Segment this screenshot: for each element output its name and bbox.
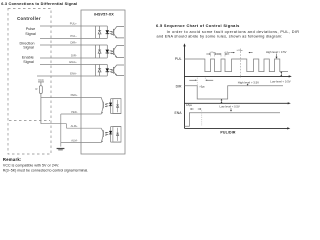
svg-text:>2.5µs: >2.5µs [209, 51, 215, 54]
svg-text:Signal: Signal [23, 60, 34, 64]
dashed divider [240, 49, 242, 79]
svg-text:iHSV57-XX: iHSV57-XX [94, 12, 114, 16]
ENA time axis [185, 127, 289, 129]
svg-text:and ENA should abide by some r: and ENA should abide by some rules, show… [157, 35, 283, 39]
svg-text:High level > 3.5V: High level > 3.5V [238, 80, 259, 84]
controller inner dashed divider [9, 120, 50, 122]
svg-text:Low level < 0.5V: Low level < 0.5V [220, 104, 240, 108]
svg-text:6.3 Connections to Differentia: 6.3 Connections to Differential Signal [1, 2, 77, 6]
wire ALM+ (with jog) [41, 123, 67, 125]
ground return wire [60, 114, 62, 147]
svg-text:PUL+: PUL+ [70, 21, 77, 25]
optocoupler input DIR [96, 45, 125, 58]
DIR setup dimension [189, 79, 196, 81]
svg-text:R: R [36, 87, 38, 91]
svg-text:Controller: Controller [17, 16, 41, 21]
svg-text:ENA-: ENA- [70, 71, 77, 75]
wire DIR+ [40, 44, 96, 46]
annotation low level PUL [280, 72, 282, 76]
svg-text:>2.5µs: >2.5µs [224, 51, 230, 54]
wire ALM- [61, 142, 102, 144]
svg-text:Signal: Signal [25, 32, 36, 36]
svg-text:DIR-: DIR- [71, 53, 77, 57]
svg-text:Remark:: Remark: [3, 157, 22, 162]
svg-text:>2.5µs: >2.5µs [236, 49, 242, 52]
wire DIR- [40, 57, 96, 59]
wire PED- [61, 113, 102, 115]
dimension t over pulse 2 [217, 53, 221, 55]
svg-text:>5µs: >5µs [199, 85, 205, 88]
wire ENA- [37, 75, 96, 77]
ground symbol [57, 148, 65, 150]
dimension t at divider [231, 52, 235, 54]
wire PUL- [40, 37, 96, 39]
wire from resistor down [40, 94, 42, 124]
svg-text:PUL/DIR: PUL/DIR [220, 131, 236, 135]
svg-text:R(3~5K) must be connected to c: R(3~5K) must be connected to control sig… [3, 169, 88, 173]
PUL time axis [185, 75, 291, 77]
svg-text:Signal: Signal [23, 46, 34, 50]
controller dashed box [8, 9, 51, 155]
optocoupler output PED [101, 98, 121, 114]
svg-text:t≥5µs: t≥5µs [186, 104, 193, 107]
DIR waveform [185, 86, 284, 99]
wire PUL+ [40, 25, 96, 27]
wire PED+ [41, 96, 102, 98]
svg-text:In order to avoid some fault o: In order to avoid some fault operations … [167, 30, 300, 34]
svg-text:PUL-: PUL- [70, 34, 76, 38]
svg-text:ENA: ENA [175, 111, 183, 115]
ENA waveform [185, 113, 281, 127]
driver box iHSV57-XX [81, 10, 125, 154]
DIR time axis [185, 102, 290, 104]
svg-text:PED+: PED+ [71, 93, 78, 97]
svg-text:ALM-: ALM- [71, 138, 77, 142]
svg-text:ENA+: ENA+ [69, 60, 77, 64]
annotation low level DIR [221, 100, 223, 103]
svg-text:DIR: DIR [176, 84, 182, 88]
svg-text:VCC is compatible with 5V or 2: VCC is compatible with 5V or 24V. [3, 163, 59, 167]
svg-text:ALM+: ALM+ [71, 124, 78, 128]
svg-text:PUL: PUL [175, 57, 182, 61]
svg-text:High level > 3.5V: High level > 3.5V [266, 50, 287, 54]
svg-text:PED-: PED- [71, 110, 77, 114]
optocoupler input ENA [96, 65, 125, 77]
vertical axis [184, 46, 186, 129]
resistor R [39, 86, 42, 94]
optocoupler input PUL [96, 26, 125, 38]
svg-text:Pulse: Pulse [26, 27, 36, 31]
svg-text:VCC: VCC [38, 78, 44, 82]
PUL waveform [185, 59, 289, 72]
optocoupler output ALM [101, 127, 121, 143]
wire ENA+ [40, 64, 96, 66]
svg-text:Low level < 0.5V: Low level < 0.5V [270, 80, 290, 84]
svg-text:DIR+: DIR+ [70, 40, 77, 44]
dimension t over pulse 1 [206, 53, 210, 55]
svg-text:6.5 Sequence Chart of Control: 6.5 Sequence Chart of Control Signals [156, 23, 240, 28]
